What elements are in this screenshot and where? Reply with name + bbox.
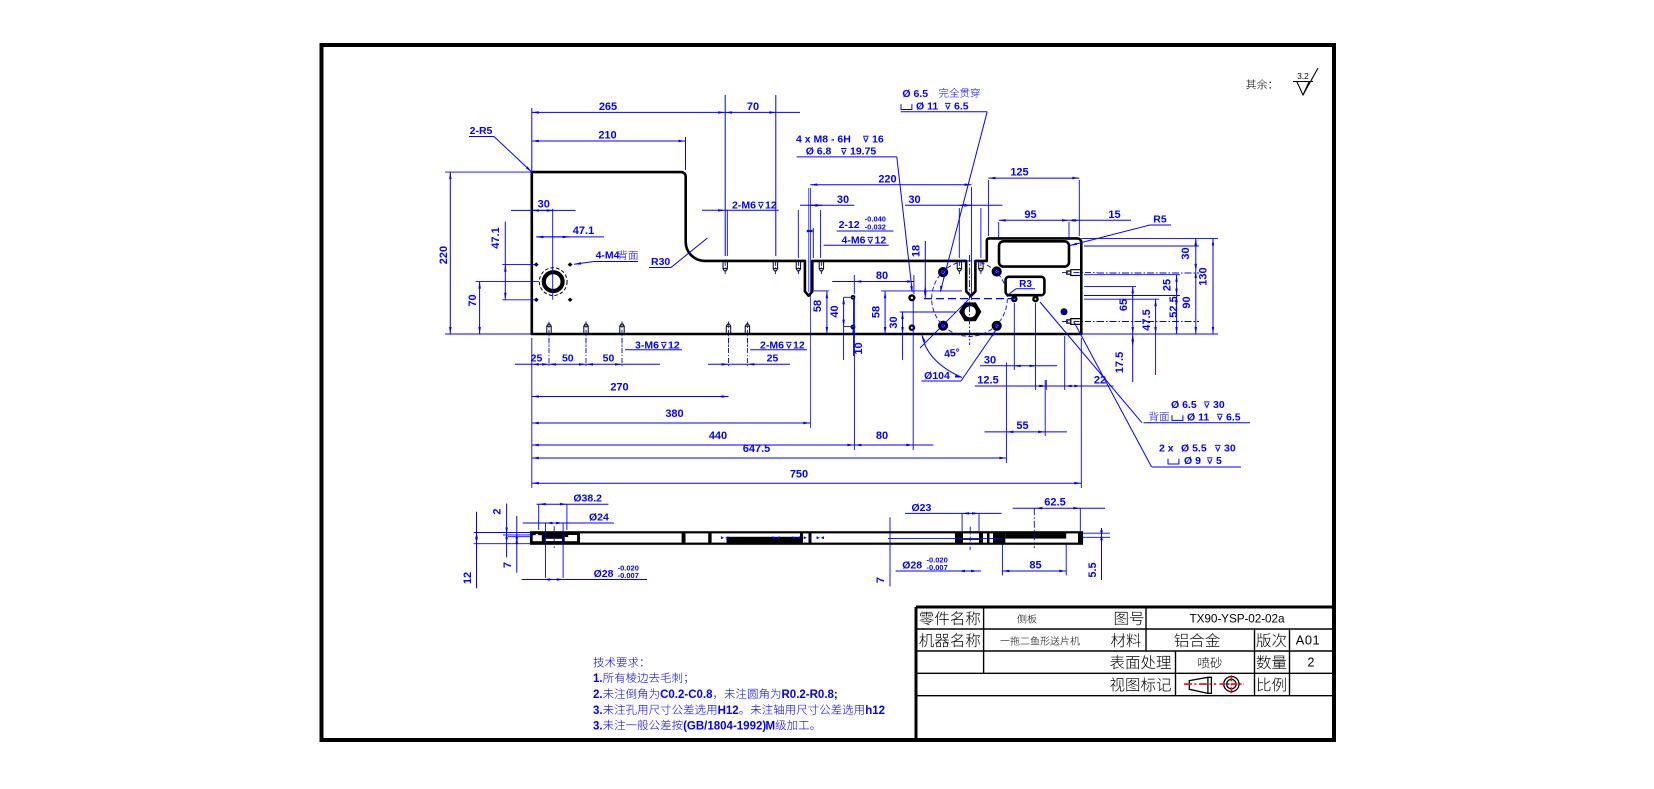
dim 52.5	[1176, 296, 1178, 335]
R5 pocket	[999, 241, 1069, 266]
side view section fills	[531, 532, 580, 543]
title block grid	[916, 628, 1333, 630]
dim D23	[905, 512, 1002, 514]
svg-text:47.1: 47.1	[490, 227, 502, 248]
svg-text:(GB/1804-1992): (GB/1804-1992)	[683, 720, 766, 732]
hexagon socket hole	[959, 302, 981, 321]
dim 265	[532, 111, 725, 113]
side view dims left	[474, 532, 531, 534]
title row 3	[1110, 655, 1124, 669]
technical requirements text	[593, 657, 603, 667]
svg-text:25: 25	[767, 353, 779, 365]
svg-text:Ø 9: Ø 9	[1184, 455, 1201, 467]
svg-text:2: 2	[492, 508, 504, 514]
dim 95 / 15	[999, 219, 1069, 221]
svg-text:440: 440	[709, 430, 727, 442]
dim D28 left	[522, 579, 647, 581]
dim 47.1 horizontal	[536, 236, 569, 238]
dim 62.5	[1013, 507, 1105, 509]
svg-text:47.5: 47.5	[1141, 309, 1153, 330]
svg-text:40: 40	[829, 305, 841, 317]
dim 25	[1176, 275, 1178, 296]
svg-text:M: M	[766, 720, 776, 732]
svg-text:50: 50	[603, 353, 615, 365]
svg-text:Ø23: Ø23	[912, 502, 932, 514]
svg-text:R5: R5	[1153, 214, 1167, 226]
svg-text:90: 90	[1181, 296, 1193, 308]
svg-text:TX90-YSP-02-02a: TX90-YSP-02-02a	[1190, 611, 1285, 625]
svg-text:62.5: 62.5	[1044, 497, 1065, 509]
dim 58 right	[884, 291, 886, 334]
svg-text:Ø 6.8: Ø 6.8	[806, 146, 832, 158]
dim 380	[532, 422, 811, 424]
svg-text:265: 265	[599, 101, 617, 113]
svg-text:70: 70	[467, 294, 479, 306]
svg-text:380: 380	[665, 408, 683, 420]
hole near right edge	[1061, 308, 1068, 315]
dim 7 right	[889, 517, 891, 586]
2x Ø5.5 holes	[1011, 296, 1018, 303]
svg-text:80: 80	[876, 270, 888, 282]
4x M4 hole markers	[534, 262, 539, 266]
svg-text:-0.032: -0.032	[865, 223, 886, 232]
extension verticals bottom	[531, 338, 533, 488]
svg-text:52.5: 52.5	[1168, 296, 1180, 317]
extension lines slots	[797, 210, 799, 258]
drawing border frame	[322, 45, 1335, 740]
svg-text:4-M4: 4-M4	[596, 250, 620, 262]
svg-text:H12: H12	[718, 705, 739, 717]
svg-text:3.: 3.	[593, 720, 603, 732]
dim 47.1 vertical	[504, 265, 506, 300]
svg-text:-0.007: -0.007	[618, 571, 639, 580]
svg-text:Ø24: Ø24	[589, 511, 609, 523]
svg-text:Ø 6.5: Ø 6.5	[902, 88, 928, 100]
svg-text:C0.2-C0.8: C0.2-C0.8	[660, 689, 713, 701]
M6 tapped holes on bottom edge	[547, 324, 551, 334]
svg-text:Ø28: Ø28	[594, 568, 614, 580]
dim 30 (a)	[810, 204, 822, 206]
view mark symbol: circles	[1224, 677, 1239, 692]
svg-text:2-12: 2-12	[839, 219, 860, 231]
dim 270	[532, 396, 729, 398]
extension lines top	[531, 108, 533, 172]
dim 2	[506, 504, 508, 558]
dim 750	[532, 482, 1082, 484]
svg-text:Ø38.2: Ø38.2	[573, 493, 602, 505]
dim 647.5	[532, 457, 1007, 459]
svg-text:50: 50	[562, 353, 574, 365]
svg-text:30: 30	[837, 194, 849, 206]
svg-text:30: 30	[888, 316, 900, 328]
svg-text:7: 7	[875, 577, 887, 583]
dim 7 left	[516, 516, 518, 573]
svg-text:Ø 5.5: Ø 5.5	[1181, 443, 1207, 455]
svg-text:130: 130	[1198, 267, 1210, 285]
dim 30 (b)	[959, 204, 971, 206]
dim 80 bottom	[854, 444, 913, 446]
R3 pocket	[1006, 277, 1045, 295]
svg-text:18: 18	[911, 245, 923, 257]
side view outline	[531, 532, 1082, 543]
svg-text:R30: R30	[651, 256, 670, 268]
svg-text:Ø28: Ø28	[902, 559, 922, 571]
svg-text:2-M6: 2-M6	[732, 200, 756, 212]
svg-text:Ø104: Ø104	[924, 370, 950, 382]
svg-text:15: 15	[1108, 209, 1120, 221]
svg-text:58: 58	[812, 300, 824, 312]
svg-text:3.2: 3.2	[1297, 71, 1309, 81]
svg-text:Ø 11: Ø 11	[916, 101, 938, 113]
svg-text:125: 125	[1010, 167, 1028, 179]
dim 220 mid	[810, 184, 971, 186]
svg-text:25: 25	[531, 353, 543, 365]
svg-text:2 x: 2 x	[1159, 443, 1174, 455]
dim 70 left	[479, 282, 481, 334]
svg-text:30: 30	[538, 199, 550, 211]
svg-text:5.5: 5.5	[1087, 562, 1099, 577]
svg-text:6.5: 6.5	[954, 101, 969, 113]
svg-text:65: 65	[1118, 299, 1130, 311]
svg-text:6.5: 6.5	[1226, 411, 1241, 423]
dim row 25/50/50 and 25	[515, 363, 660, 365]
svg-text:30: 30	[908, 194, 920, 206]
svg-text:95: 95	[1024, 209, 1036, 221]
side drilled holes right edge	[1067, 270, 1081, 276]
dim 12.5 / 22	[975, 385, 1114, 387]
bearing hole left	[544, 272, 563, 291]
svg-text:22: 22	[1094, 374, 1106, 386]
right side extension lines	[1081, 237, 1218, 239]
svg-text:220: 220	[878, 173, 896, 185]
dim D28 right	[896, 570, 981, 572]
svg-text:7: 7	[502, 562, 514, 568]
svg-text:70: 70	[747, 101, 759, 113]
dim D38.2	[537, 503, 609, 505]
dim 440	[532, 444, 855, 446]
dim 130	[1212, 238, 1214, 334]
dim 10	[853, 299, 855, 356]
small holes	[851, 295, 856, 300]
dim 30 vert	[902, 312, 904, 334]
svg-text:45°: 45°	[943, 346, 960, 360]
svg-text:3.: 3.	[593, 705, 603, 717]
title row 4	[1110, 678, 1124, 692]
svg-text:h12: h12	[865, 705, 885, 717]
svg-text:1.: 1.	[593, 673, 603, 685]
svg-text:750: 750	[790, 468, 808, 480]
svg-text:55: 55	[1016, 420, 1028, 432]
dim 12	[476, 512, 478, 589]
dim 90	[1195, 271, 1197, 334]
svg-text:47.1: 47.1	[573, 225, 594, 237]
bottom bolt extension dashes	[548, 338, 550, 368]
dim 18	[924, 241, 926, 299]
svg-text:12: 12	[765, 200, 777, 212]
title row 2	[919, 633, 934, 647]
leader B: 2x 5.5 annotation	[1074, 322, 1152, 467]
svg-text:220: 220	[438, 246, 450, 264]
svg-text:Ø 6.5: Ø 6.5	[1171, 399, 1197, 411]
svg-text:5: 5	[1216, 455, 1222, 467]
svg-text:85: 85	[1029, 559, 1041, 571]
svg-text:12: 12	[462, 572, 474, 584]
dim 125	[988, 177, 1079, 179]
svg-text:2-R5: 2-R5	[470, 125, 493, 137]
dim 47.5	[1155, 299, 1157, 334]
svg-text:80: 80	[876, 430, 888, 442]
dim 30 right top	[1195, 238, 1197, 271]
dim 70 top	[725, 111, 776, 113]
blue centers on side view	[721, 536, 728, 539]
title row 1	[919, 612, 933, 625]
dim 80 mid	[854, 281, 914, 283]
svg-text:A01: A01	[1296, 632, 1321, 647]
svg-text:12.5: 12.5	[977, 374, 998, 386]
svg-text:4 x M8 - 6H: 4 x M8 - 6H	[796, 133, 851, 145]
dim 220 left	[449, 172, 451, 334]
svg-text:58: 58	[871, 306, 883, 318]
centerlines circle	[552, 209, 554, 300]
svg-text:16: 16	[872, 133, 884, 145]
svg-text:2: 2	[1308, 656, 1315, 670]
M6 tapped holes on step surface	[723, 261, 727, 271]
title block border	[916, 606, 1333, 609]
svg-text:647.5: 647.5	[743, 443, 771, 455]
dim D24	[523, 522, 614, 524]
4x M8-6H holes	[938, 267, 948, 277]
svg-text:-0.007: -0.007	[927, 563, 948, 572]
part main outline (top view)	[532, 172, 1082, 334]
dim 55	[985, 431, 1067, 433]
dim 30 top-left	[532, 209, 554, 211]
dim 17.5	[1132, 334, 1134, 382]
dim 65	[1132, 286, 1134, 334]
svg-text:270: 270	[610, 382, 628, 394]
svg-text:19.75: 19.75	[850, 146, 876, 158]
bolt circle Ø104 (dashed)	[932, 261, 1008, 337]
dim 210	[532, 140, 686, 142]
dim 5.5	[1101, 528, 1103, 580]
svg-text:Ø 11: Ø 11	[1187, 411, 1209, 423]
svg-text:R0.2-R0.8;: R0.2-R0.8;	[782, 689, 838, 701]
leader A: cbore annotation	[1040, 302, 1142, 423]
dim 30 (5.5 holes)	[980, 365, 1057, 367]
dim 58 left	[826, 291, 828, 334]
svg-text:30: 30	[1224, 443, 1236, 455]
svg-text:30: 30	[1213, 399, 1225, 411]
dim 85	[1002, 570, 1066, 572]
svg-text:25: 25	[1162, 279, 1174, 291]
svg-text:30: 30	[1180, 247, 1192, 259]
surface roughness note	[1246, 79, 1256, 89]
svg-text:30: 30	[984, 354, 996, 366]
view mark symbol: frustum	[1189, 677, 1211, 693]
svg-text:210: 210	[598, 130, 616, 142]
dim 40	[843, 297, 845, 326]
svg-text:17.5: 17.5	[1114, 352, 1126, 373]
svg-text:2.: 2.	[593, 689, 603, 701]
